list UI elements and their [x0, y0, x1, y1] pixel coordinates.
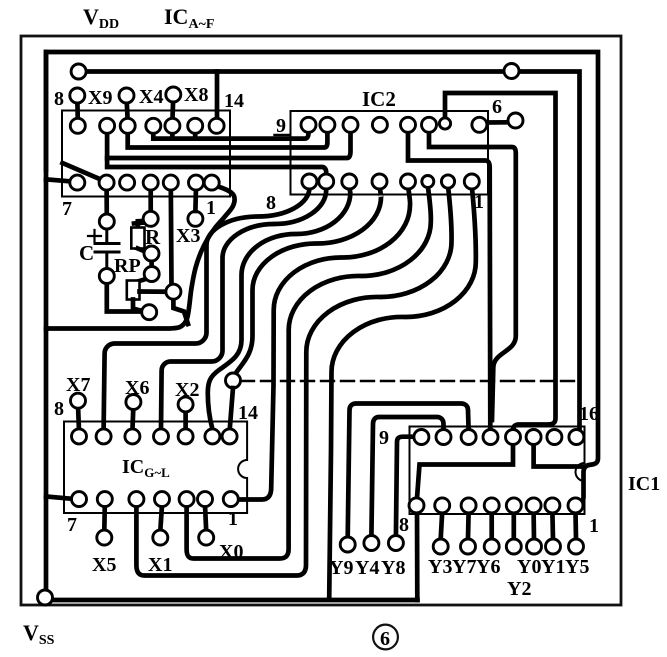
wire R top lead: [138, 221, 147, 228]
wire pad to pad: [149, 256, 154, 271]
circled 6: [373, 625, 398, 650]
IC2 pads bottom: [302, 174, 479, 189]
wire VDD horizontal: [79, 72, 580, 438]
IC G~L outline: [64, 422, 247, 514]
wire pad233 to ICGL pin14: [230, 388, 233, 431]
pads Y9 Y4 Y8: [340, 536, 403, 553]
wire pin2 to X3: [193, 186, 198, 211]
wire ICA-F pad2 to IC2 pin11: [107, 128, 350, 158]
wire Y8 L to IC1 pin9: [396, 437, 415, 537]
wire pad5 stub to h1: [170, 130, 175, 139]
svg-text:X1: X1: [148, 554, 172, 576]
pads Y3..Y5: [433, 539, 583, 554]
svg-text:14: 14: [238, 402, 258, 424]
svg-text:VSS: VSS: [23, 620, 55, 648]
wire Y9 L to IC1 pin11: [348, 404, 469, 539]
wire pin4 pad to R top: [134, 222, 150, 224]
wire Y4 L to IC1 pin10: [371, 417, 443, 537]
wire IC2 pin12 segment: [408, 132, 490, 430]
wire RP bottom lead: [133, 300, 146, 313]
svg-text:14: 14: [224, 90, 244, 112]
bundle N1 IC2 p8 to ICGL pin9: [104, 186, 310, 430]
pad RP bottom: [142, 305, 157, 320]
wire ICGL X1 stub: [160, 505, 162, 531]
svg-text:X7: X7: [66, 374, 90, 396]
pads X5 X1 X0: [97, 530, 214, 545]
pad RP wiper: [144, 267, 159, 282]
svg-text:Y1: Y1: [541, 556, 565, 578]
IC1 outline: [410, 427, 585, 515]
svg-text:6: 6: [492, 96, 502, 118]
wire pad down right join: [173, 298, 188, 324]
svg-text:X6: X6: [125, 377, 149, 399]
svg-text:9: 9: [379, 427, 389, 449]
bundle N2 IC2 p7 to ICGL pin11: [161, 186, 326, 430]
board outline: [21, 36, 621, 605]
svg-text:Y6: Y6: [476, 556, 500, 578]
wire X7 stub: [78, 405, 79, 431]
IC U-A~F outline: [62, 111, 230, 197]
svg-text:8: 8: [399, 514, 409, 536]
label 9 underline stroke: [275, 134, 289, 136]
pad C top: [99, 214, 114, 229]
IC G~L pads top: [72, 429, 238, 444]
wire VSS ring top/left/bottom: [46, 52, 598, 505]
IC G~L pads bottom: [72, 492, 239, 507]
wire VSS left rail down: [46, 52, 418, 600]
svg-text:IC2: IC2: [362, 87, 396, 111]
dashed net line: [241, 380, 575, 382]
wire VDD branch to ICA-F pin14: [215, 72, 220, 120]
bundle N3 IC2 p6 to ICGL pin13: [208, 186, 351, 429]
bundle N6 IC2 p3 to ICGL pin3: [187, 186, 431, 559]
bundle N8 IC2 p1 to VSS bottom: [329, 186, 476, 598]
wire pin4 stub: [148, 186, 153, 215]
IC1 pads bottom: [409, 498, 583, 513]
pad C bottom: [99, 269, 114, 284]
wire IC1 pin13 to pin8: [417, 444, 514, 505]
pad R top: [143, 211, 158, 226]
pad VDD: [71, 64, 86, 79]
pad VSS: [38, 590, 53, 605]
svg-text:ICA~F: ICA~F: [164, 4, 214, 32]
svg-text:X2: X2: [175, 379, 199, 401]
pad on VDD line: [504, 64, 519, 79]
wire diag edge to pin6: [63, 163, 103, 180]
wire ICA-F pad3 to IC2 pin10: [128, 128, 328, 148]
svg-text:Y7: Y7: [452, 556, 476, 578]
svg-text:Y5: Y5: [565, 556, 589, 578]
svg-text:Y3: Y3: [428, 556, 452, 578]
pad R bottom: [144, 246, 159, 261]
wire pad6 stub to h1: [193, 130, 198, 139]
IC2 pads top: [301, 117, 487, 132]
svg-text:1: 1: [589, 515, 599, 537]
pad 6 ext: [508, 113, 523, 128]
wire ICGL X0 stub: [205, 505, 206, 531]
bundle N7 IC2 p2 to ICGL pin5: [136, 186, 451, 576]
svg-text:16: 16: [579, 403, 599, 425]
svg-text:Y4: Y4: [355, 557, 379, 579]
pad RP right: [166, 284, 181, 299]
potentiometer RP: [127, 281, 140, 300]
wire pad to RP top: [136, 278, 149, 282]
wire C bottom lead: [107, 280, 149, 312]
svg-text:X0: X0: [219, 541, 243, 563]
svg-text:7: 7: [62, 198, 72, 220]
wire IC1 pin14 to right: [534, 444, 584, 467]
wire X2 stub: [183, 408, 188, 431]
svg-text:R: R: [145, 225, 161, 249]
wire IC1 bottom stubs: [441, 512, 576, 539]
svg-text:8: 8: [54, 398, 64, 420]
svg-text:Y9: Y9: [329, 557, 353, 579]
wire IC1 pin8 to VSS: [415, 505, 420, 600]
wire ICGL X5 stub: [102, 505, 107, 531]
svg-text:8: 8: [266, 192, 276, 214]
svg-text:Y0: Y0: [517, 556, 541, 578]
bundle N0 ICA-F pin1 to rail: [46, 185, 235, 329]
wire rail branch ICA-F pin7: [46, 179, 72, 181]
svg-text:ICG~L: ICG~L: [122, 456, 170, 480]
svg-text:8: 8: [54, 88, 64, 110]
wire rail to ICGL pin7: [46, 497, 74, 500]
svg-text:VDD: VDD: [83, 4, 119, 32]
ICA-F ext pads top row: [70, 87, 181, 103]
svg-text:7: 7: [67, 514, 77, 536]
resistor R: [131, 228, 144, 249]
svg-text:1: 1: [228, 508, 238, 530]
svg-text:X8: X8: [184, 84, 208, 106]
wire R bottom to pad: [138, 249, 148, 253]
IC2 outline: [291, 111, 489, 195]
svg-text:X9: X9: [88, 87, 112, 109]
capacitor C: [88, 226, 119, 272]
wire top ext pad stubs ICA-F: [77, 96, 173, 121]
svg-text:Y8: Y8: [381, 557, 405, 579]
wire pin6 to C top: [104, 186, 109, 218]
IC A~F pads top: [70, 118, 224, 133]
svg-text:IC1: IC1: [628, 473, 660, 495]
IC1 pads top: [414, 430, 584, 445]
bundle N5 IC2 p4 to ICGL pin1: [237, 186, 410, 500]
bundle N4 IC2 p5 to pad233: [234, 186, 381, 377]
svg-text:X4: X4: [139, 86, 163, 108]
svg-text:X5: X5: [92, 554, 116, 576]
svg-text:X3: X3: [176, 225, 200, 247]
svg-text:1: 1: [206, 197, 216, 219]
wire X6 stub: [132, 406, 133, 431]
wire pin3 down to pad: [168, 186, 173, 286]
wire ICA-F pad4 to IC2 pin9: [153, 128, 308, 139]
svg-text:9: 9: [276, 115, 286, 137]
wire IC2 pin13 right down to IC1 pin12: [429, 132, 516, 420]
pad dashed: [226, 373, 241, 388]
svg-text:RP: RP: [114, 255, 141, 277]
svg-text:6: 6: [380, 628, 390, 650]
svg-text:1: 1: [474, 191, 484, 213]
pads X7 X6 X2: [71, 393, 194, 412]
svg-text:C: C: [79, 241, 94, 265]
svg-text:Y2: Y2: [507, 578, 531, 600]
IC A~F pads bottom: [70, 175, 219, 190]
wire ICA-F pad2 to IC2 bottom pin7: [107, 158, 326, 174]
wire IC2 pin15 up over to IC1 pin13: [445, 93, 556, 430]
wire RP right to pad: [140, 289, 169, 294]
wire IC2 pin16 to pad6: [486, 120, 510, 125]
pad X3: [188, 211, 203, 226]
